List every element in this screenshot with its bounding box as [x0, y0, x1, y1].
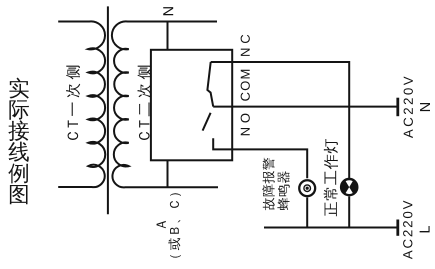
label AC220V L — [403, 201, 430, 260]
node N label — [163, 7, 173, 15]
buzzer B1 (故障报警蜂鸣器) — [299, 180, 315, 196]
label CT一次侧 — [66, 66, 80, 140]
switch blade (relay changeover contact, closed to NC) — [207, 62, 213, 107]
switch open blade toward NO — [203, 113, 211, 131]
wire: COM line from switch through box edge to AC220V N terminal — [213, 106, 398, 108]
terminal bar AC220V L — [396, 220, 399, 236]
title 实际接线例图 — [8, 78, 29, 205]
wire: NO contact L-bend and line through box edge to buzzer branch corner, down to buzzer — [213, 138, 307, 178]
label CT二次侧 — [137, 66, 151, 140]
wire: NC contact line from switch through box edge to lamp branch corner, down to lamp — [211, 62, 350, 179]
terminal label NO — [241, 114, 250, 136]
relay box U1 — [151, 50, 232, 161]
label AC220V N — [404, 76, 430, 138]
CT secondary winding (CT二次侧) with top lead wire to N and bottom lead wire — [112, 21, 218, 187]
terminal bar AC220V N — [396, 98, 399, 117]
wire: lamp bottom to L bus — [348, 196, 350, 227]
terminal label COM — [241, 70, 250, 101]
label 故障报警蜂鸣器 — [262, 158, 290, 210]
label 正常工作灯 — [324, 139, 338, 216]
label phase A (或B、C) — [157, 193, 181, 257]
wire: bottom stub from relay box to phase wire A — [167, 160, 169, 187]
transformer core — [107, 6, 109, 214]
CT primary winding (CT一次侧) — [58, 21, 105, 187]
wire: N stub from top lead down to relay box — [167, 22, 169, 50]
wire: L bus to AC220V L terminal — [264, 227, 398, 229]
wire: buzzer bottom to L bus — [306, 197, 308, 227]
lamp H1 (正常工作灯) — [341, 179, 357, 195]
terminal label NC — [241, 35, 250, 56]
